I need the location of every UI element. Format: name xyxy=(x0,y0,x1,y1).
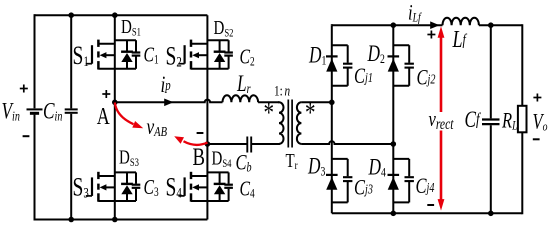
capacitor Cj4 xyxy=(393,158,409,160)
label + (node A) xyxy=(102,93,110,95)
label dot-mark secondary (*) xyxy=(305,98,316,129)
wire xyxy=(191,200,229,202)
label S4 xyxy=(166,173,183,201)
label B xyxy=(193,142,206,170)
label - (node B) xyxy=(197,132,204,134)
capacitor Cj3 xyxy=(332,158,348,160)
wire rectifier bottom rail xyxy=(332,212,523,214)
node leg1 bottom xyxy=(112,217,118,223)
node Cin top xyxy=(68,12,74,18)
wire bottom rail (input bus -) xyxy=(35,219,208,221)
svg-text:1:: 1: xyxy=(274,82,283,99)
svg-text:*: * xyxy=(264,98,275,129)
diode D1 xyxy=(326,55,338,57)
resistor RL xyxy=(521,24,523,106)
wire xyxy=(191,68,229,70)
label S2 xyxy=(166,42,182,70)
wire bridge leg 1 xyxy=(114,15,116,219)
inductor Lf xyxy=(443,18,523,26)
label D2 xyxy=(367,42,385,67)
capacitor Cb xyxy=(246,137,248,153)
label 1:n xyxy=(274,82,283,99)
label C1 xyxy=(144,43,159,67)
wire secondary top to rectifier xyxy=(301,101,331,103)
label ip xyxy=(161,73,172,98)
svg-text:Cf: Cf xyxy=(465,108,482,133)
arrow vAB left (red) xyxy=(115,103,134,125)
label A xyxy=(97,102,111,129)
label vAB xyxy=(147,115,168,140)
transistor S3 xyxy=(98,175,114,177)
label Cin xyxy=(43,99,62,124)
label S1 xyxy=(73,41,89,69)
wire xyxy=(115,39,136,41)
svg-text:A: A xyxy=(97,102,111,129)
label Cj4 xyxy=(416,175,435,199)
label DS2 xyxy=(214,16,234,40)
label + (vrect) xyxy=(427,34,435,36)
wire left rail lower xyxy=(34,115,36,221)
wire secondary bottom to rectifier with hop xyxy=(301,141,393,144)
label D3 xyxy=(307,154,325,179)
node Cin bottom xyxy=(68,217,74,223)
battery Vin xyxy=(27,108,43,110)
diode DS2 xyxy=(219,40,221,51)
node leg D2/D4 top xyxy=(391,22,397,28)
wire left rail upper xyxy=(34,14,36,108)
transformer Tr core xyxy=(287,100,289,148)
node secondary top / D13 midpoint xyxy=(329,100,335,106)
wire A to Lr with hop over leg2 xyxy=(115,100,223,103)
node Cf top xyxy=(488,22,494,28)
wire xyxy=(207,171,228,173)
svg-text:B: B xyxy=(193,142,206,170)
label DS3 xyxy=(119,145,139,169)
wire Cb to primary xyxy=(251,143,280,145)
node A xyxy=(112,100,118,106)
label - (vrect) xyxy=(427,204,434,206)
wire rectifier top rail xyxy=(331,24,333,25)
label Cj2 xyxy=(417,66,436,90)
wire xyxy=(98,68,136,70)
arrow ip xyxy=(164,99,173,107)
label Vo xyxy=(533,110,548,134)
label Lf xyxy=(452,26,468,53)
label Lr xyxy=(236,72,251,97)
wire xyxy=(115,171,136,173)
label DS1 xyxy=(121,15,141,39)
label Tr xyxy=(286,149,299,172)
label Cf xyxy=(465,108,482,133)
label + (Vo) xyxy=(533,97,541,99)
capacitor C1 xyxy=(135,40,137,51)
capacitor Cf xyxy=(490,25,492,118)
wire xyxy=(207,39,228,41)
label C3 xyxy=(144,176,160,200)
wire B to Cb xyxy=(207,143,247,145)
diode DS1 xyxy=(126,40,128,51)
wire xyxy=(98,200,136,202)
transformer Tr primary winding xyxy=(279,101,284,144)
capacitor Cj2 xyxy=(393,44,409,46)
transformer Tr secondary winding xyxy=(297,102,302,144)
label C2 xyxy=(240,45,255,69)
label - (Vo) xyxy=(533,138,540,140)
node leg1 top xyxy=(112,12,118,18)
transistor S4 xyxy=(191,175,207,177)
label vrect xyxy=(427,113,457,131)
diode D3 xyxy=(326,174,338,176)
label Cj3 xyxy=(354,176,373,200)
diode D4 xyxy=(388,174,400,176)
label + (Vin) xyxy=(20,88,28,90)
capacitor C3 xyxy=(135,172,137,183)
diode DS4 xyxy=(219,172,221,183)
capacitor C4 xyxy=(228,172,230,183)
capacitor Cin xyxy=(70,15,72,108)
label Vin xyxy=(2,99,20,124)
label Cj1 xyxy=(354,65,373,89)
label Cb xyxy=(236,151,252,175)
label S3 xyxy=(73,173,89,201)
label - (Vin) xyxy=(23,135,30,137)
inductor Lr xyxy=(223,95,280,102)
label iLf xyxy=(408,1,422,25)
label RL xyxy=(501,109,517,133)
transistor S1 xyxy=(98,43,114,45)
wire rectifier leg D1/D3 xyxy=(331,25,333,213)
node leg D2/D4 bottom xyxy=(391,211,397,217)
diode D2 xyxy=(388,55,400,57)
label dot-mark primary (*) xyxy=(264,98,275,129)
wire top rail (input bus +) xyxy=(35,14,208,16)
label D4 xyxy=(368,155,386,180)
node B xyxy=(205,141,211,147)
node D24 midpoint xyxy=(391,141,397,147)
label D1 xyxy=(308,43,326,68)
arrow vAB right (red) xyxy=(184,141,208,145)
arrow iLf xyxy=(430,21,439,29)
label DS4 xyxy=(212,146,232,170)
transistor S2 xyxy=(191,43,207,45)
capacitor Cj1 xyxy=(332,44,348,46)
label C4 xyxy=(240,177,256,201)
diode DS3 xyxy=(126,172,128,183)
wire bridge leg 2 xyxy=(206,15,208,219)
svg-text:n: n xyxy=(285,82,291,99)
wire rectifier leg D2/D4 xyxy=(392,25,394,213)
capacitor C2 xyxy=(228,40,230,51)
node Cf bottom xyxy=(488,211,494,217)
arrow vrect (red) xyxy=(440,36,443,113)
